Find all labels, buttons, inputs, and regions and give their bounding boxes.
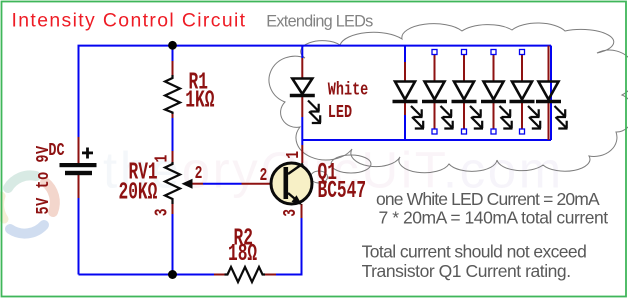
resistor R1 <box>165 75 180 114</box>
potentiometer RV1 zigzag <box>165 162 180 204</box>
LED D5 anode pin lead <box>493 55 495 82</box>
battery B1 DC supply <box>60 148 97 176</box>
LED D4 anode pin lead <box>463 55 465 82</box>
wire left vertical lower <box>78 198 80 275</box>
svg-text:5V to 9V: 5V to 9V <box>32 145 54 214</box>
LED D3 top connector square <box>432 50 437 55</box>
svg-text:3: 3 <box>280 209 301 217</box>
wire white LED column top <box>301 46 303 58</box>
LED D7 light arrow upper <box>555 106 567 117</box>
potentiometer RV1 wiper arrow <box>182 179 193 189</box>
LED D3 bottom connector square <box>432 129 437 134</box>
LED D5 light arrow upper <box>500 106 512 117</box>
LED D6 cathode bar <box>510 100 535 103</box>
LED D6 bottom connector square <box>520 129 525 134</box>
wire LED bank bottom rail <box>302 139 551 141</box>
LED D4 light arrow lower <box>471 117 483 129</box>
svg-text:one White LED Current = 20mA: one White LED Current = 20mA <box>376 189 600 209</box>
LED D4 top connector square <box>462 50 467 55</box>
R1 top lead <box>172 61 174 75</box>
RV1 wiper lead <box>193 183 204 185</box>
wire bottom left <box>79 274 215 276</box>
white LED cathode lead <box>301 95 303 117</box>
svg-text:1KΩ: 1KΩ <box>185 88 214 115</box>
LED D5 top connector square <box>491 50 496 55</box>
LED D7 triangle <box>539 82 559 100</box>
LED D6 triangle <box>512 82 532 100</box>
LED D2 light arrow lower <box>412 117 424 129</box>
svg-text:3: 3 <box>152 209 173 217</box>
svg-text:White: White <box>328 78 369 100</box>
LED D3 cathode pin lead <box>434 103 436 130</box>
LED D7 anode pin lead <box>548 46 550 81</box>
wire LED1 column bottom <box>404 115 406 140</box>
white LED anode lead <box>301 58 303 78</box>
battery plus sign <box>82 152 93 155</box>
svg-text:Total current should not excee: Total current should not exceed <box>362 242 587 262</box>
svg-text:LED: LED <box>328 101 352 123</box>
LED D2 light arrow upper <box>411 106 423 117</box>
transistor Q1 emitter stroke <box>288 193 301 204</box>
R1 bottom lead <box>172 114 174 118</box>
LED D6 light arrow lower <box>529 117 541 129</box>
svg-text:Extending LEDs: Extending LEDs <box>266 13 373 31</box>
cloud outline <box>269 23 628 183</box>
svg-text:7 * 20mA = 140mA total current: 7 * 20mA = 140mA total current <box>379 208 609 228</box>
wire top rail <box>78 45 552 47</box>
LED D2 triangle <box>395 82 415 100</box>
LED D5 light arrow lower <box>501 117 513 129</box>
R2 right lead <box>265 274 276 276</box>
Q1 base lead <box>242 183 272 185</box>
battery positive lead <box>78 137 80 163</box>
transistor Q1 body <box>271 163 312 204</box>
LED D4 light arrow upper <box>470 106 482 117</box>
LED D2 cathode pin lead <box>404 103 406 115</box>
LED D3 anode pin lead <box>434 55 436 82</box>
battery negative plate <box>65 171 92 175</box>
LED D5 bottom connector square <box>491 129 496 134</box>
svg-text:20KΩ: 20KΩ <box>119 180 158 207</box>
LED D4 triangle <box>454 82 474 100</box>
Q1 collector lead <box>301 145 303 163</box>
svg-text:1: 1 <box>152 155 173 163</box>
wire middle column below dot <box>172 46 174 61</box>
battery negative lead <box>78 175 80 198</box>
wire bottom right of R2 <box>276 218 302 275</box>
thought tail ellipse big <box>331 155 371 173</box>
wire between R1 and RV1 <box>172 118 174 152</box>
resistor R2 <box>225 267 266 282</box>
LED D2 anode pin lead <box>404 62 406 81</box>
svg-text:Transistor Q1 Current rating.: Transistor Q1 Current rating. <box>362 261 571 281</box>
LED D7 light arrow lower <box>556 117 568 129</box>
LED D5 cathode pin lead <box>493 103 495 130</box>
Q1 emitter lead <box>301 204 303 218</box>
svg-text:2: 2 <box>195 163 203 184</box>
transistor Q1 emitter arrowhead <box>292 195 303 205</box>
R2 left lead <box>214 274 225 276</box>
LED D4 cathode bar <box>452 100 477 103</box>
wire below RV1 <box>172 214 174 275</box>
LED D7 cathode pin lead <box>548 103 550 140</box>
svg-text:BC547: BC547 <box>318 178 367 205</box>
wire LED1 column top <box>404 46 406 62</box>
LED D4 cathode pin lead <box>463 103 465 130</box>
LED D6 top connector square <box>520 50 525 55</box>
RV1 pin 1 lead <box>172 151 174 162</box>
LED D5 cathode bar <box>481 100 506 103</box>
wire LED bank right edge <box>550 46 552 140</box>
LED D6 cathode pin lead <box>521 103 523 130</box>
thought tail ellipse small <box>311 171 328 183</box>
wire white LED column bottom <box>301 117 303 145</box>
node junction dot bottom <box>168 270 177 279</box>
watermark logo swirl <box>0 175 55 233</box>
svg-text:2: 2 <box>260 165 268 186</box>
LED D3 light arrow lower <box>442 117 454 129</box>
transistor Q1 collector stroke <box>288 164 303 175</box>
wire left vertical upper <box>78 46 80 138</box>
svg-text:1: 1 <box>283 151 304 159</box>
battery positive plate <box>60 163 97 167</box>
LED D6 anode pin lead <box>521 55 523 82</box>
svg-text:Intensity Control Circuit: Intensity Control Circuit <box>12 9 247 31</box>
LED D4 bottom connector square <box>462 129 467 134</box>
LED D3 triangle <box>425 82 445 100</box>
node junction dot top <box>168 41 177 50</box>
white LED D1 <box>290 79 315 96</box>
LED D5 triangle <box>484 82 504 100</box>
LED D3 cathode bar <box>422 100 447 103</box>
LED bank of 6 extending LEDs <box>393 46 568 140</box>
transistor Q1 base bar <box>284 167 289 199</box>
RV1 pin 3 lead <box>172 204 174 214</box>
LED D7 cathode bar <box>536 100 561 103</box>
wire wiper to base <box>203 183 242 185</box>
LED D6 light arrow upper <box>528 106 540 117</box>
svg-text:18Ω: 18Ω <box>228 241 257 268</box>
white LED arrows <box>308 101 321 124</box>
LED D3 light arrow upper <box>441 106 453 117</box>
LED D2 cathode bar <box>393 100 418 103</box>
